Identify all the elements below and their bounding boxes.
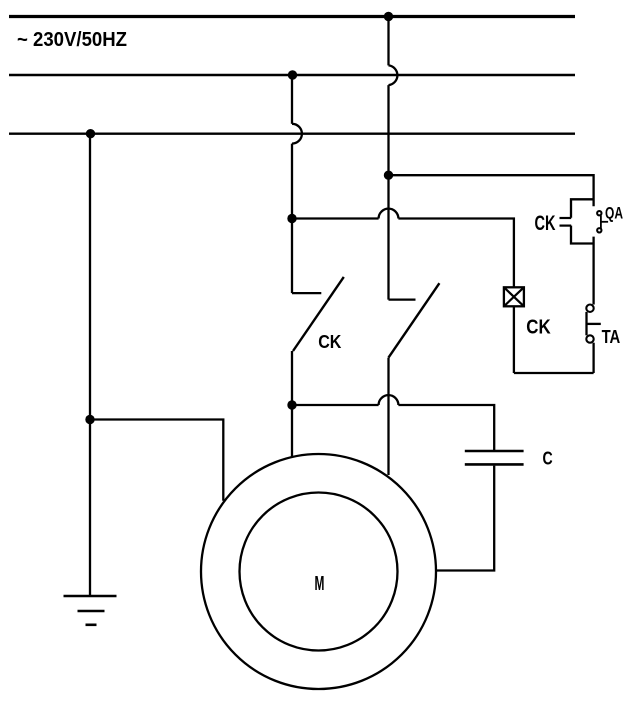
svg-text:QA: QA bbox=[605, 204, 623, 223]
svg-text:CK: CK bbox=[535, 212, 556, 235]
svg-text:M: M bbox=[315, 573, 325, 595]
svg-text:CK: CK bbox=[526, 316, 551, 338]
svg-text:~ 230V/50HZ: ~ 230V/50HZ bbox=[17, 28, 127, 51]
svg-text:C: C bbox=[543, 448, 553, 469]
svg-text:TA: TA bbox=[602, 327, 621, 347]
svg-text:CK: CK bbox=[318, 331, 342, 352]
